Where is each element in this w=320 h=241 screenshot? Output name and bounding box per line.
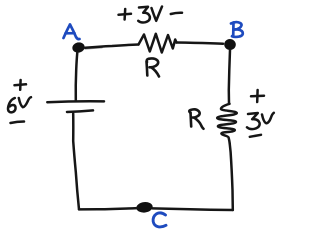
resistor R2 (right, vertical zigzag) [217,104,237,144]
label - (battery) [11,122,25,124]
wire battery to node A [76,53,78,101]
label + 3V - (right resistor) [247,90,274,137]
wire B down to resistor R2 [229,50,230,104]
wire bottom-left corner up to battery [73,114,79,210]
node C [136,201,154,213]
label +3V- (top) [119,7,183,23]
wire R2 down to bottom-right corner [230,144,233,211]
pencil smudge right of node A [85,48,102,49]
node A [71,41,85,54]
wire resistor R1 to B [177,43,224,44]
battery V1 negative plate [67,110,93,112]
label + (battery) [15,80,27,90]
node label C [153,213,166,227]
battery V1 positive plate [47,100,104,103]
node label A [64,25,80,40]
label R (top resistor) [147,58,160,76]
label R (right resistor) [189,109,203,129]
resistor R1 (top, zigzag) [139,34,177,53]
wire A to resistor R1 [85,45,139,48]
bottom wire (corner to node C) [153,208,233,210]
node label B [231,22,243,37]
node B [223,38,236,51]
bottom wire (node C to bottom-left corner) [79,208,138,209]
label 6V (battery) [8,97,31,112]
